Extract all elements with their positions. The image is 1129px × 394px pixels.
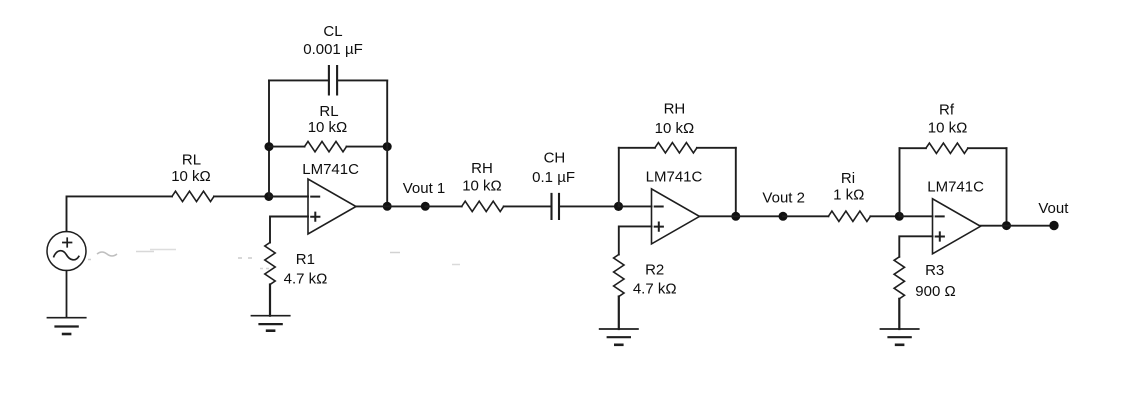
- svg-text:LM741C: LM741C: [646, 168, 703, 185]
- wire: stage2 feedback left vertical: [618, 148, 620, 207]
- svg-text:LM741C: LM741C: [927, 178, 984, 195]
- svg-text:Vout 2: Vout 2: [762, 189, 805, 206]
- wire: RL feedback right segment: [347, 146, 388, 148]
- svg-text:LM741C: LM741C: [302, 161, 359, 178]
- wire: stage1 feedback right vertical: [386, 80, 388, 206]
- svg-text:10 kΩ: 10 kΩ: [308, 119, 348, 136]
- svg-text:Ri: Ri: [841, 170, 855, 187]
- svg-text:R2: R2: [645, 262, 664, 279]
- wire R3 to ground: [898, 299, 900, 329]
- wire V1 top to input resistor: [67, 196, 173, 231]
- wire R2 to ground: [618, 297, 620, 330]
- wire Vout1 to RH: [425, 205, 461, 207]
- resistor R2 4.7k: [614, 255, 624, 297]
- resistor R1 4.7k: [265, 243, 275, 285]
- wire: RH feedback right segment: [697, 147, 736, 149]
- resistor RH (feedback) 10k: [655, 143, 697, 153]
- wire: RL feedback left segment: [269, 146, 305, 148]
- wire: U3 output: [981, 225, 1055, 227]
- wire node to U1 minus pin: [269, 196, 308, 198]
- node: U1 output junction: [383, 202, 392, 211]
- svg-text:900 Ω: 900 Ω: [915, 283, 955, 300]
- node: feedback right junction: [383, 142, 392, 151]
- resistor RL (feedback) 10k: [305, 141, 347, 151]
- wire RH to CH: [504, 205, 551, 207]
- svg-text:4.7 kΩ: 4.7 kΩ: [284, 270, 328, 287]
- ground (R2): [599, 329, 639, 345]
- capacitor CH 0.1uF: [552, 194, 560, 219]
- svg-text:CL: CL: [323, 23, 342, 40]
- node: U3 output junction: [1002, 221, 1011, 230]
- ground (R1): [251, 316, 291, 331]
- node Vout 1: [421, 202, 430, 211]
- resistor R3 900: [894, 257, 904, 299]
- wire: U2 output: [700, 215, 784, 217]
- wire node to U3 minus pin: [899, 215, 932, 217]
- wire: stage3 feedback left vertical: [899, 148, 901, 216]
- svg-text:CH: CH: [544, 149, 566, 166]
- ground (R3): [880, 329, 920, 345]
- svg-text:R1: R1: [296, 251, 315, 268]
- svg-text:4.7 kΩ: 4.7 kΩ: [633, 281, 677, 298]
- wire: stage1 feedback left vertical: [268, 80, 270, 196]
- wire: CL branch left: [269, 79, 328, 81]
- wire: U1 non-inverting input: [270, 217, 308, 243]
- wire CH to U2 inverting node: [560, 205, 618, 207]
- svg-text:10 kΩ: 10 kΩ: [928, 120, 968, 137]
- node: U2 inverting input junction: [614, 202, 623, 211]
- svg-text:0.1 µF: 0.1 µF: [532, 169, 575, 186]
- node Vout: [1049, 221, 1058, 230]
- resistor Rf 10k: [926, 143, 968, 153]
- wire: U1 output: [356, 205, 425, 207]
- wire: RH feedback left segment: [619, 147, 655, 149]
- node Vout 2: [779, 212, 788, 221]
- wire: stage2 feedback right vertical: [735, 148, 737, 217]
- svg-text:RH: RH: [664, 101, 686, 118]
- wire Vout2 to Ri: [783, 215, 828, 217]
- wire: Rf right segment: [968, 147, 1007, 149]
- svg-text:Vout: Vout: [1038, 200, 1069, 217]
- op-amp U1 LM741C: [308, 179, 356, 234]
- svg-text:Vout 1: Vout 1: [403, 180, 446, 197]
- wire: stage3 feedback right vertical: [1006, 148, 1008, 225]
- svg-text:10 kΩ: 10 kΩ: [171, 168, 211, 185]
- op-amp U2 LM741C: [652, 189, 700, 244]
- node: U3 inverting input junction: [895, 212, 904, 221]
- svg-text:RL: RL: [319, 103, 338, 120]
- resistor RL (input) 10k: [172, 191, 214, 201]
- wire: CL branch right: [338, 79, 387, 81]
- resistor Ri 1k: [828, 211, 870, 221]
- svg-text:10 kΩ: 10 kΩ: [655, 120, 695, 137]
- wire node to U2 minus pin: [619, 205, 652, 207]
- svg-text:R3: R3: [925, 262, 944, 279]
- node: feedback left junction: [265, 142, 274, 151]
- wire: U3 non-inverting input: [899, 236, 932, 256]
- svg-text:0.001 µF: 0.001 µF: [303, 41, 363, 58]
- wire: Rf left segment: [900, 147, 926, 149]
- AC source V1: [47, 232, 86, 271]
- svg-text:1 kΩ: 1 kΩ: [833, 187, 864, 204]
- svg-text:RH: RH: [471, 160, 493, 177]
- svg-text:RL: RL: [182, 152, 201, 169]
- op-amp U3 LM741C: [933, 199, 981, 254]
- svg-text:10 kΩ: 10 kΩ: [462, 178, 502, 195]
- svg-text:Rf: Rf: [939, 101, 955, 118]
- watermark remnants: [88, 250, 460, 269]
- wire Ri to U3 inverting node: [870, 215, 899, 217]
- capacitor CL 0.001uF: [329, 66, 337, 95]
- resistor RH (series) 10k: [462, 201, 504, 211]
- wire: U2 non-inverting input: [619, 226, 652, 254]
- wire RL to inverting node: [214, 195, 269, 197]
- node: U2 output junction: [731, 212, 740, 221]
- ground (source V1): [47, 271, 87, 334]
- node: U1 inverting input junction: [264, 192, 273, 201]
- wire R1 to ground: [269, 285, 271, 316]
